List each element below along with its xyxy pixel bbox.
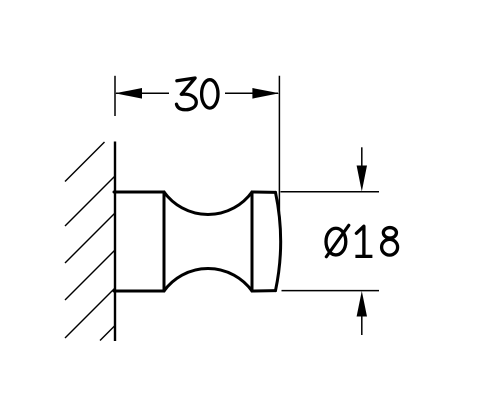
knob cap left edge	[251, 192, 254, 291]
wall hatch line 5	[65, 288, 115, 338]
knob flange right edge	[163, 192, 166, 291]
knob flange bottom edge	[114, 290, 164, 293]
knob cap top edge	[252, 191, 276, 194]
dim 30 left extension line	[114, 76, 116, 116]
wall hatch line 4	[65, 250, 115, 300]
knob flange top edge	[114, 191, 164, 194]
knob neck top concave arc	[164, 192, 252, 214]
dim 30 label digit 0	[202, 80, 218, 108]
dim O18 top extension line	[281, 191, 380, 193]
knob neck bottom concave arc	[164, 269, 252, 291]
dim O18 label digit 8 top bowl	[383, 228, 396, 239]
knob cap convex right arc	[276, 192, 281, 290]
wall hatch line 1	[65, 142, 105, 182]
dim O18 bottom extension line	[282, 290, 380, 292]
dim O18 top arrow leader line	[361, 147, 363, 168]
wall hatch line 2	[65, 176, 115, 226]
dim O18 label digit 8 bottom bowl	[382, 239, 398, 255]
dim 30 right arrowhead	[252, 88, 279, 99]
wall hatch line 6	[100, 326, 115, 341]
dim O18 label digit 1 stem and flag	[356, 226, 364, 256]
dim 30 left arrowhead	[115, 88, 142, 99]
dim O18 bottom arrowhead pointing up	[357, 291, 367, 317]
dim O18 bottom arrow leader line	[361, 316, 363, 335]
wall line	[114, 142, 116, 342]
dim 30 right extension line	[278, 76, 280, 213]
dim O18 label diameter symbol ellipse	[326, 228, 346, 255]
dim O18 top arrowhead pointing down	[357, 166, 367, 192]
wall hatch line 3	[65, 213, 115, 263]
dim O18 label diameter symbol slash	[326, 225, 349, 256]
dim O18 label digit 1 base serif	[355, 255, 372, 258]
dim 30 dimension line left segment	[116, 92, 169, 94]
dim 30 label digit 3	[177, 78, 197, 110]
knob cap bottom edge	[252, 289, 276, 292]
dim 30 dimension line right segment	[225, 92, 278, 94]
